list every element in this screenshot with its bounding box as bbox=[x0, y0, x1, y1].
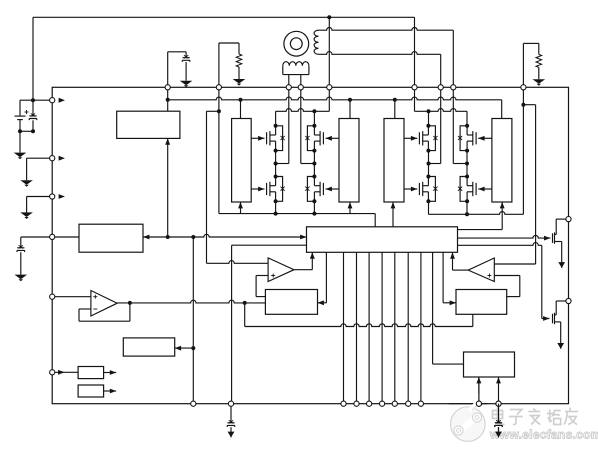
svg-text:www.elecfans.com: www.elecfans.com bbox=[489, 427, 598, 441]
